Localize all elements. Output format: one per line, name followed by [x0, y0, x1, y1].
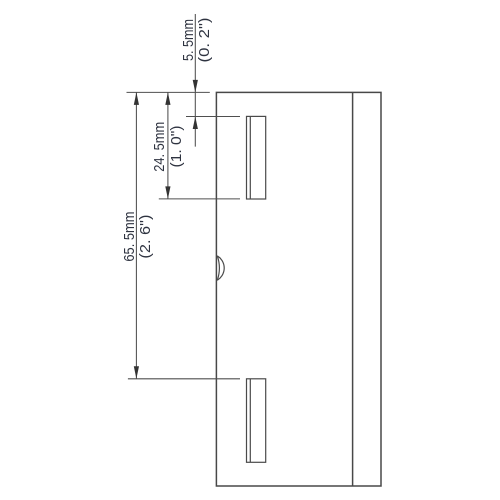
svg-text:5. 5mm: 5. 5mm: [180, 19, 197, 61]
svg-text:(1. 0"): (1. 0"): [168, 126, 185, 168]
svg-text:(0. 2"): (0. 2"): [196, 18, 213, 63]
svg-text:65. 5mm: 65. 5mm: [121, 212, 138, 262]
svg-text:(2. 6"): (2. 6"): [137, 215, 154, 259]
svg-text:24. 5mm: 24. 5mm: [151, 122, 168, 172]
